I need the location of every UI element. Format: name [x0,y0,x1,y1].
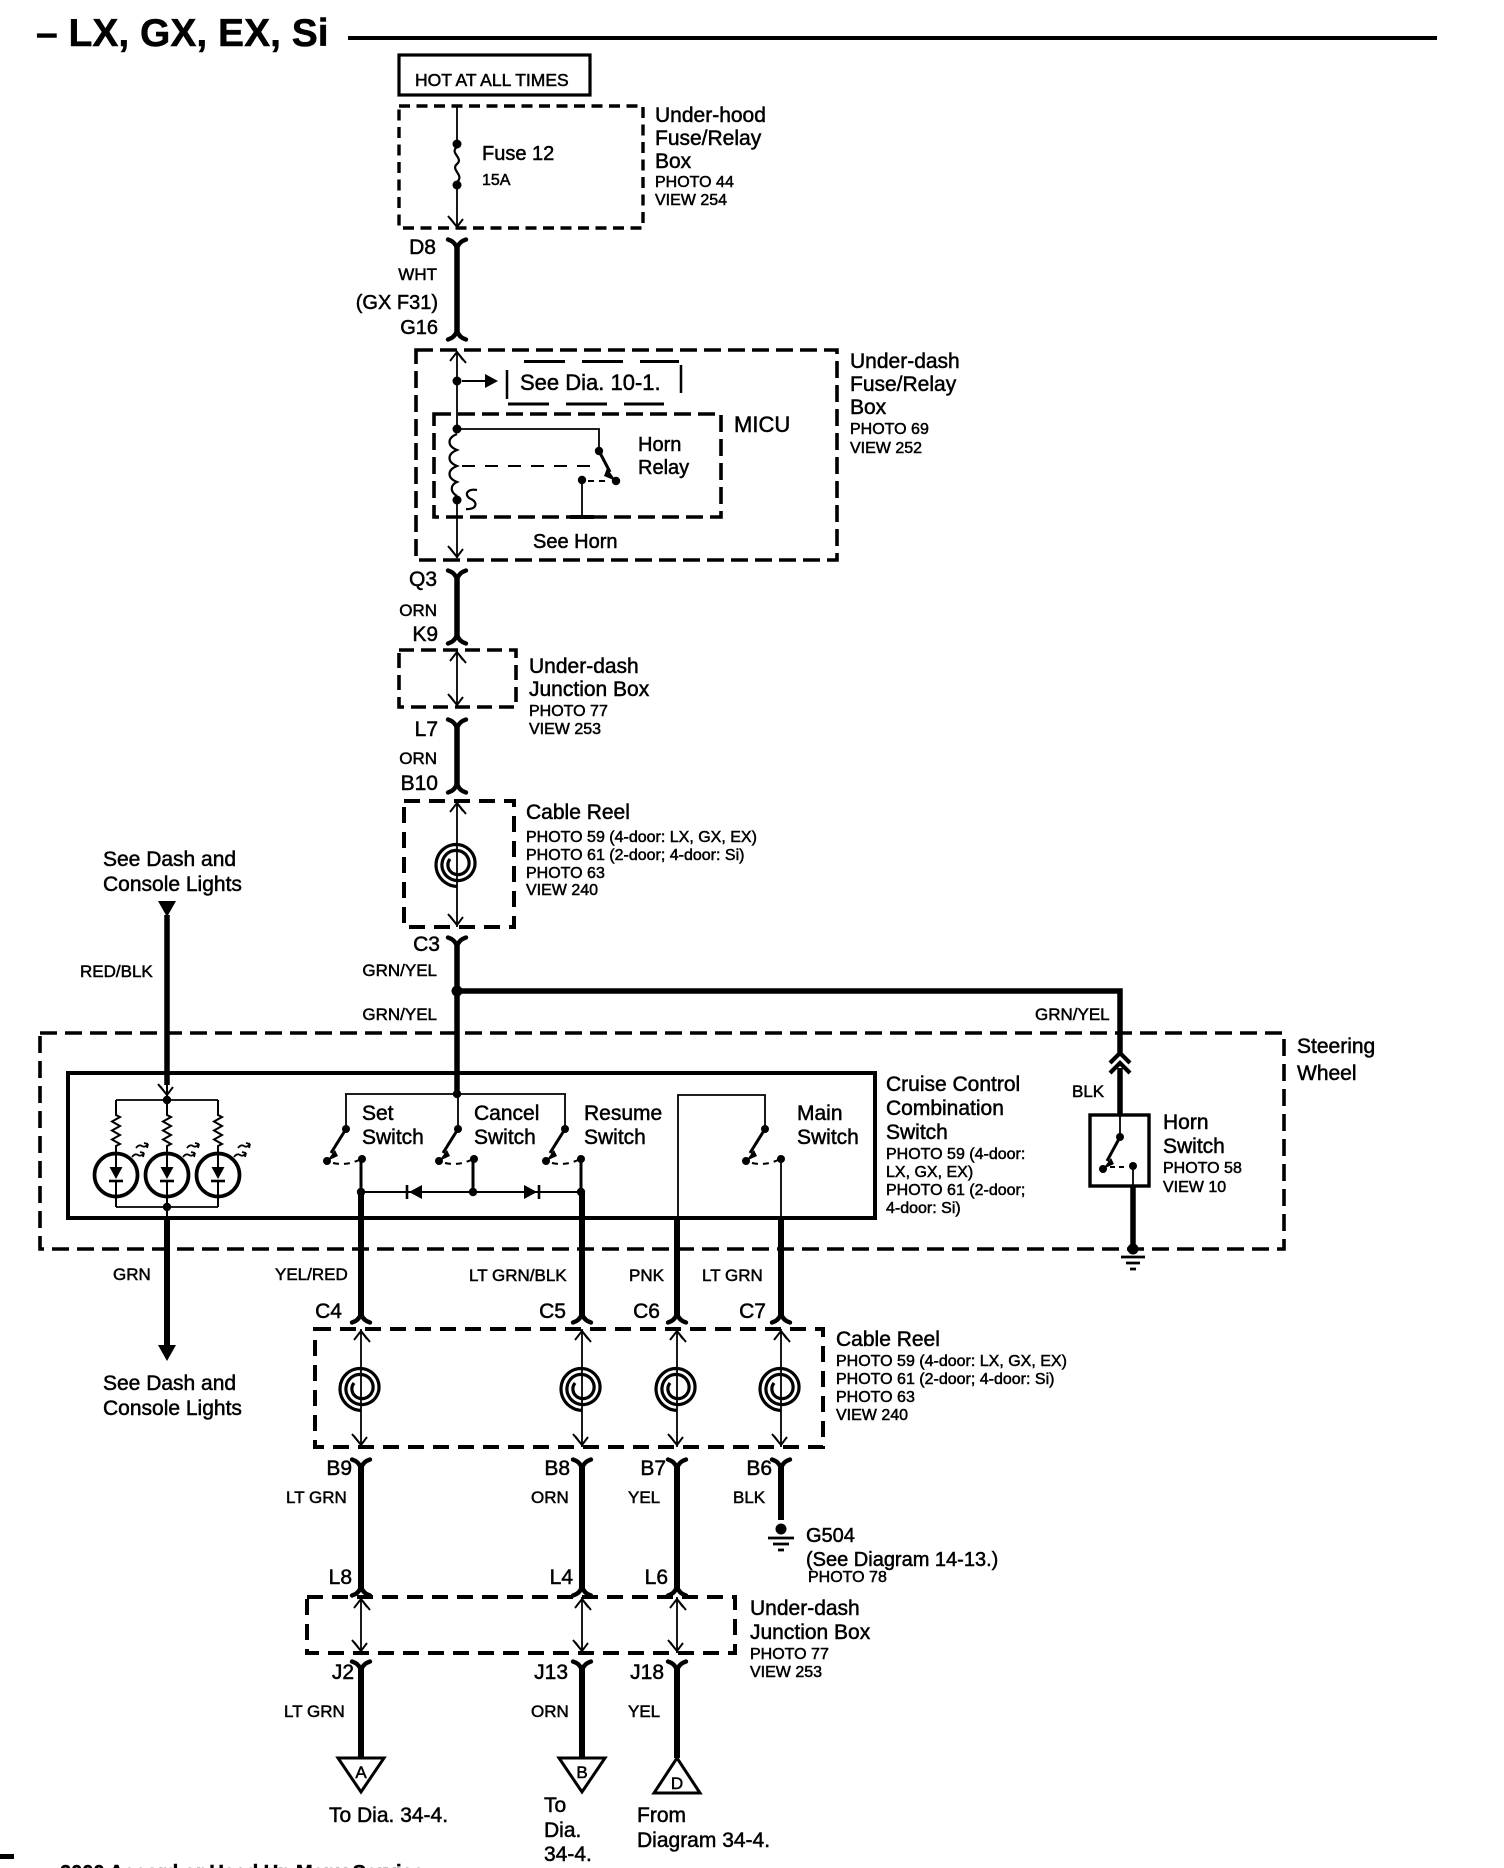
cable reel wire C6-B7 [676,1329,678,1447]
svg-text:Combination: Combination [886,1097,1004,1120]
connector L7 [448,720,466,729]
svg-text:B9: B9 [326,1457,352,1480]
wire from J13 [579,1668,585,1758]
main switch arm [750,1129,765,1153]
horn switch output wire [1132,1166,1134,1186]
svg-text:Switch: Switch [474,1126,536,1149]
wire to horn [581,480,583,517]
horn switch moving contact [1116,1133,1124,1141]
fuse 12 element [455,147,460,182]
cable reel wire C6-B7 spiral [656,1369,695,1411]
horn relay coil [450,434,458,496]
svg-text:Relay: Relay [638,457,689,479]
cable reel wire B10-C3 spiral [436,845,475,887]
resistor R2 [163,1100,171,1153]
diode rail [361,1191,581,1193]
wire to C7 [778,1218,784,1316]
junction box lower wire L8-J2 [360,1597,362,1653]
resume switch arm [550,1129,565,1153]
svg-text:Fuse/Relay: Fuse/Relay [655,127,762,150]
svg-text:HOT AT ALL TIMES: HOT AT ALL TIMES [415,70,569,90]
ground at steering wheel [1128,1244,1139,1255]
set switch moving contact [342,1125,350,1133]
horn relay coil bottom junction [453,496,462,505]
connector B9 [352,1460,370,1469]
wire from B7 [674,1466,680,1589]
node G16 feed junction [453,377,462,386]
svg-text:RED/BLK: RED/BLK [80,962,153,981]
connector B7 [668,1460,686,1469]
svg-text:Cruise Control: Cruise Control [886,1073,1020,1096]
svg-text:VIEW 240: VIEW 240 [836,1407,908,1424]
svg-text:C3: C3 [413,933,440,956]
wire WHT D8-G16 [454,246,460,333]
svg-text:34-4.: 34-4. [544,1843,592,1866]
svg-text:From: From [637,1804,686,1827]
svg-text:VIEW 10: VIEW 10 [1163,1179,1226,1196]
connector C5 [573,1314,591,1323]
wire RED/BLK [164,915,170,1085]
svg-text:Wheel: Wheel [1297,1062,1357,1085]
svg-text:Under-dash: Under-dash [529,655,639,678]
wire GRN out of LED array [166,1207,168,1218]
svg-text:PHOTO 59 (4-door: LX, GX, EX): PHOTO 59 (4-door: LX, GX, EX) [836,1353,1067,1370]
node GRN/YEL junction [452,986,463,997]
svg-text:Fuse 12: Fuse 12 [482,143,554,165]
horn switch arm [1107,1137,1120,1161]
wire GRN/YEL trunk [454,944,460,1094]
fuse 12 wire [456,106,458,143]
resistor R1 [112,1100,120,1153]
connector J18 [668,1662,686,1671]
svg-text:MICU: MICU [734,412,790,437]
node resume/diode junction [577,1188,585,1196]
svg-text:PHOTO 69: PHOTO 69 [850,421,929,438]
svg-text:Switch: Switch [1163,1135,1225,1158]
cable reel wire C4-B9 [360,1329,362,1447]
connector B10 [448,784,466,793]
svg-text:ORN: ORN [531,1702,569,1721]
set switch arm [331,1129,346,1153]
svg-text:GRN/YEL: GRN/YEL [362,961,437,980]
horn relay contact arm [599,451,610,472]
off-page connector A [338,1758,384,1792]
set switch output terminal [358,1155,366,1163]
svg-text:PHOTO 61 (2-door; 4-door: Si): PHOTO 61 (2-door; 4-door: Si) [526,847,744,864]
under-dash fuse/relay box [416,350,837,560]
fuse 12 bottom terminal [453,181,462,190]
svg-text:See Dia. 10-1.: See Dia. 10-1. [520,370,661,395]
svg-text:Under-dash: Under-dash [750,1597,860,1620]
main switch dashed throw [752,1160,778,1164]
horn relay fixed contact [578,476,586,484]
under-dash junction box lower [307,1597,735,1653]
MICU box [434,414,721,517]
set switch output wire [360,1159,363,1192]
svg-text:WHT: WHT [398,265,437,284]
connector D8 [448,240,466,249]
resume switch output wire [580,1159,583,1192]
cable reel wire C5-B8 [581,1329,583,1447]
wire from J18 [674,1668,680,1758]
connector B6 [772,1460,790,1469]
wire from B9 [358,1466,364,1589]
svg-text:Cancel: Cancel [474,1102,539,1125]
svg-text:ORN: ORN [399,749,437,768]
cancel switch output wire [472,1159,475,1192]
cruise control combination switch box [68,1073,875,1218]
svg-text:See Horn: See Horn [533,531,618,553]
cable reel wire C5-B8 spiral [561,1369,600,1411]
resume switch moving contact [561,1125,569,1133]
connector J2 [352,1662,370,1671]
svg-text:YEL/RED: YEL/RED [275,1265,348,1284]
svg-text:GRN/YEL: GRN/YEL [362,1005,437,1024]
connector G16 [448,331,466,340]
svg-text:See Dash and: See Dash and [103,848,236,871]
junction box upper pass-through wire [456,650,458,707]
svg-text:Steering: Steering [1297,1035,1375,1058]
svg-text:Switch: Switch [362,1126,424,1149]
svg-text:ORN: ORN [399,601,437,620]
cancel switch fixed end [435,1157,443,1165]
under-dash box trunk exit [456,500,458,558]
svg-text:Console Lights: Console Lights [103,873,242,896]
svg-text:VIEW 253: VIEW 253 [750,1664,822,1681]
node switch feed [453,1090,461,1098]
node cancel/diode junction [469,1188,477,1196]
svg-text:B10: B10 [401,772,438,795]
fuse 12 top terminal [453,140,462,149]
svg-text:Cable Reel: Cable Reel [526,801,630,824]
svg-text:K9: K9 [412,623,438,646]
resistor R3 [214,1100,222,1153]
fuse 12 lower wire [456,188,458,226]
set switch contact drop [345,1094,347,1128]
svg-text:BLK: BLK [733,1488,766,1507]
svg-text:PHOTO 63: PHOTO 63 [526,865,605,882]
svg-text:Diagram 34-4.: Diagram 34-4. [637,1829,770,1852]
svg-text:Q3: Q3 [409,568,437,591]
svg-text:Junction Box: Junction Box [750,1621,871,1644]
svg-text:Set: Set [362,1102,394,1125]
off-page connector D [654,1758,700,1793]
wire ORN Q3-K9 [454,577,460,637]
under-dash junction box upper [399,650,516,707]
svg-text:(See Diagram 14-13.): (See Diagram 14-13.) [806,1549,998,1571]
svg-text:Dia.: Dia. [544,1819,581,1842]
horn relay coil top junction [453,425,462,434]
svg-text:BLK: BLK [1072,1082,1105,1101]
arrow to See Dia. 10-1. [462,380,487,382]
wire to C4 [358,1192,364,1316]
svg-text:LT GRN: LT GRN [702,1266,763,1285]
cancel switch contact drop [457,1094,459,1128]
svg-text:PHOTO 77: PHOTO 77 [529,703,608,720]
svg-text:PHOTO 58: PHOTO 58 [1163,1160,1242,1177]
junction box lower wire L4-J13 [581,1597,583,1653]
main switch fixed end [742,1157,750,1165]
junction box lower wire L6-J18 [676,1597,678,1653]
connector C4 [352,1314,370,1323]
wire GRN/YEL branch to horn switch [457,991,1120,1054]
wire ORN L7-B10 [454,726,460,786]
svg-text:Horn: Horn [1163,1111,1209,1134]
svg-text:PHOTO 59 (4-door: LX, GX, EX): PHOTO 59 (4-door: LX, GX, EX) [526,829,757,846]
LED D2 [146,1154,189,1197]
cable reel box lower [315,1329,823,1447]
wire from B8 [579,1466,585,1589]
horn switch box [1090,1115,1149,1186]
horn relay arm tip [612,477,620,485]
LED D1 [95,1154,138,1197]
svg-text:15A: 15A [482,172,511,189]
horn switch fixed end [1099,1165,1107,1173]
ground G504 [776,1524,787,1535]
off-page connector B [559,1758,605,1792]
horn relay actuation dashed link [462,465,600,467]
svg-text:D: D [671,1774,683,1793]
outgoing arrow to dash lights [158,1345,176,1361]
svg-text:L8: L8 [329,1566,352,1589]
svg-text:– LX, GX, EX, Si: – LX, GX, EX, Si [36,12,329,55]
svg-text:C6: C6 [633,1300,660,1323]
cable reel wire C7-B6 spiral [760,1369,799,1411]
svg-text:PHOTO 78: PHOTO 78 [808,1569,887,1586]
horn switch contact [1119,1115,1121,1136]
svg-text:ORN: ORN [531,1488,569,1507]
svg-text:C5: C5 [539,1300,566,1323]
svg-text:L6: L6 [645,1566,668,1589]
horn switch dashed throw [1110,1166,1128,1168]
cancel switch dashed throw [445,1160,471,1164]
main switch moving contact [761,1125,769,1133]
svg-text:YEL: YEL [628,1702,660,1721]
svg-text:D8: D8 [409,236,436,259]
svg-text:J13: J13 [534,1661,568,1684]
svg-text:Under-hood: Under-hood [655,104,766,127]
svg-text:See Dash and: See Dash and [103,1372,236,1395]
svg-text:VIEW 254: VIEW 254 [655,192,727,209]
svg-text:LX, GX, EX): LX, GX, EX) [886,1164,973,1181]
svg-text:L4: L4 [550,1566,574,1589]
incoming arrow from dash lights [158,901,176,917]
resume switch dashed throw [552,1160,578,1164]
connector L8 [352,1587,370,1596]
wire to C6 [674,1218,680,1316]
svg-text:G16: G16 [400,317,438,339]
horn switch output terminal [1129,1162,1137,1170]
horn relay dashed throw [588,480,610,482]
connector C7 [772,1314,790,1323]
main switch feed loop [678,1095,765,1218]
illumination feed into switch box [166,1085,168,1100]
svg-text:C7: C7 [739,1300,766,1323]
svg-text:PHOTO 63: PHOTO 63 [836,1389,915,1406]
wire from J2 [358,1668,364,1758]
svg-text:LT GRN/BLK: LT GRN/BLK [469,1266,567,1285]
connector J13 [573,1662,591,1671]
node LED bottom junction [163,1203,171,1211]
svg-text:B7: B7 [640,1457,666,1480]
svg-text:Horn: Horn [638,434,681,456]
wire from B6 [778,1466,784,1520]
svg-text:GRN/YEL: GRN/YEL [1035,1005,1110,1024]
svg-text:Resume: Resume [584,1102,662,1125]
connector C6 [668,1314,686,1323]
main switch output terminal [777,1155,785,1163]
cancel switch output terminal [470,1155,478,1163]
horn relay top wire [457,429,599,451]
wire to C5 [579,1192,585,1316]
svg-text:To: To [544,1794,566,1817]
cable reel wire C7-B6 [780,1329,782,1447]
svg-text:B8: B8 [544,1457,570,1480]
under-hood fuse/relay box [399,106,643,228]
coil tap S hook [466,490,477,509]
main switch output wire [780,1159,782,1218]
svg-text:PHOTO 44: PHOTO 44 [655,174,734,191]
svg-text:LT GRN: LT GRN [284,1702,345,1721]
wire into under-dash box [456,351,458,429]
svg-text:L7: L7 [415,718,438,741]
svg-text:Under-dash: Under-dash [850,350,960,373]
svg-text:(GX F31): (GX F31) [356,292,438,314]
LED D2 light arrows [183,1152,195,1157]
svg-text:VIEW 252: VIEW 252 [850,440,922,457]
title rule [348,36,1437,40]
LED D3 [197,1154,240,1197]
svg-text:Fuse/Relay: Fuse/Relay [850,373,957,396]
horn relay contact pivot [595,447,603,455]
svg-text:PNK: PNK [629,1266,665,1285]
connector L6 [668,1587,686,1596]
svg-text:Junction Box: Junction Box [529,678,650,701]
svg-text:Console Lights: Console Lights [103,1397,242,1420]
node set/diode junction [357,1188,365,1196]
connector K9 [448,635,466,644]
steering wheel box [40,1033,1284,1249]
connector Q3 [448,571,466,580]
svg-text:J2: J2 [332,1661,354,1684]
svg-text:J18: J18 [630,1661,664,1684]
set switch fixed end [323,1157,331,1165]
resume switch fixed end [542,1157,550,1165]
hot-at-all-times box [399,55,590,95]
connector L4 [573,1587,591,1596]
svg-text:PHOTO 61 (2-door;: PHOTO 61 (2-door; [886,1182,1025,1199]
svg-text:PHOTO 59 (4-door:: PHOTO 59 (4-door: [886,1146,1025,1163]
svg-text:Switch: Switch [797,1126,859,1149]
svg-text:Switch: Switch [584,1126,646,1149]
svg-text:C4: C4 [315,1300,342,1323]
svg-text:B6: B6 [746,1457,772,1480]
LED D1 light arrows [132,1152,144,1157]
svg-text:LT GRN: LT GRN [286,1488,347,1507]
svg-text:To Dia. 34-4.: To Dia. 34-4. [329,1804,448,1827]
svg-text:Main: Main [797,1102,843,1125]
svg-text:A: A [355,1763,367,1782]
resume switch contact drop [564,1094,566,1128]
svg-text:G504: G504 [806,1525,855,1547]
svg-text:Box: Box [655,150,692,173]
svg-text:GRN: GRN [113,1265,151,1284]
svg-text:YEL: YEL [628,1488,660,1507]
diode D5 (points right) [524,1185,537,1199]
connector C3 [448,938,466,947]
wire BLK [1117,1068,1123,1115]
node illumination junction [163,1096,171,1104]
svg-text:PHOTO 61 (2-door; 4-door: Si): PHOTO 61 (2-door; 4-door: Si) [836,1371,1054,1388]
svg-text:Switch: Switch [886,1121,948,1144]
LED D3 light arrows [234,1152,246,1157]
resume switch output terminal [577,1155,585,1163]
LED branch rails [116,1099,218,1101]
svg-text:B: B [576,1763,587,1782]
svg-text:Box: Box [850,396,887,419]
cable reel wire C4-B9 spiral [340,1369,379,1411]
svg-text:VIEW 253: VIEW 253 [529,721,601,738]
cancel switch arm [443,1129,458,1153]
cancel switch moving contact [454,1125,462,1133]
diode D4 (points left) [409,1185,422,1199]
cable reel box upper [404,801,514,927]
cable reel wire B10-C3 [456,801,458,927]
svg-text:2000 Accord or Used Up Many Se: 2000 Accord or Used Up Many Service [60,1862,424,1868]
page footer cut-off text [0,1854,14,1859]
svg-text:4-door: Si): 4-door: Si) [886,1200,961,1217]
set switch dashed throw [333,1160,359,1164]
svg-text:PHOTO 77: PHOTO 77 [750,1646,829,1663]
see dia. 10-1. reference box [524,360,679,363]
inline connector chevrons [1110,1053,1130,1073]
svg-text:Cable Reel: Cable Reel [836,1328,940,1351]
connector B8 [573,1460,591,1469]
svg-text:VIEW 240: VIEW 240 [526,882,598,899]
